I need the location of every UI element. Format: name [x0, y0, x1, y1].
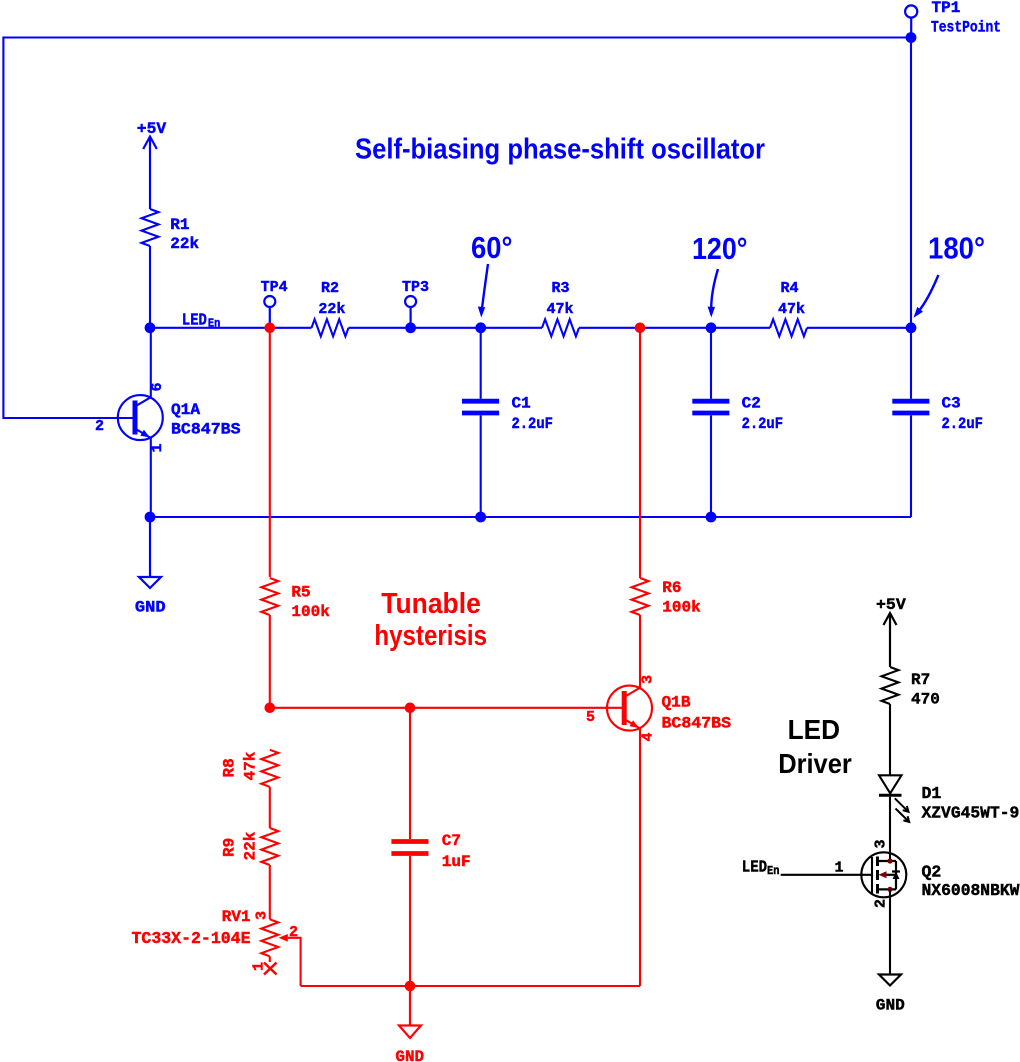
capacitor C2 — [692, 328, 729, 517]
svg-text:5: 5 — [586, 709, 595, 726]
wire D1 to Q2 — [889, 797, 891, 861]
wire node row to Q1B base — [270, 707, 623, 709]
svg-text:47k: 47k — [242, 751, 260, 780]
capacitor C3 — [892, 328, 929, 517]
resistor R6 — [632, 578, 649, 615]
svg-text:C1: C1 — [512, 395, 531, 413]
wire R5 to node — [269, 615, 271, 708]
svg-text:C7: C7 — [442, 832, 461, 850]
capacitor C7 — [391, 708, 428, 986]
resistor R1 — [142, 209, 159, 246]
test point TP3 — [405, 296, 416, 328]
test point TP1 — [905, 5, 917, 37]
svg-text:R5: R5 — [291, 584, 310, 602]
svg-text:R7: R7 — [911, 671, 930, 689]
svg-text:hysterisis: hysterisis — [374, 620, 487, 652]
svg-text:GND: GND — [395, 1048, 424, 1062]
resistor R8 — [261, 750, 278, 787]
svg-text:NX6008NBKW: NX6008NBKW — [922, 881, 1020, 900]
RV1 pin1 stub and no-connect X — [269, 956, 271, 962]
svg-text:XZVG45WT-9: XZVG45WT-9 — [922, 804, 1020, 823]
MOSFET Q2 — [781, 852, 907, 897]
svg-text:+5V: +5V — [876, 596, 906, 614]
svg-text:R6: R6 — [662, 579, 681, 597]
LED D1 — [879, 775, 909, 822]
svg-text:47k: 47k — [778, 301, 805, 318]
resistor R9 — [261, 828, 278, 865]
svg-text:470: 470 — [911, 691, 940, 709]
svg-text:6: 6 — [149, 382, 166, 391]
svg-text:Q2: Q2 — [922, 863, 942, 882]
svg-text:3: 3 — [873, 839, 890, 848]
arrow 60 degrees — [482, 264, 488, 310]
svg-text:TP4: TP4 — [261, 279, 288, 296]
svg-text:2.2uF: 2.2uF — [512, 415, 553, 433]
wire R9 to RV1 — [269, 865, 271, 919]
arrow 120 degrees — [711, 269, 718, 310]
svg-text:4: 4 — [640, 732, 657, 741]
wire bottom red — [301, 985, 640, 987]
arrow 180 degrees — [918, 275, 938, 312]
transistor Q1B — [607, 686, 652, 986]
svg-text:100k: 100k — [291, 603, 330, 621]
svg-text:1: 1 — [835, 860, 844, 877]
junction dots red — [265, 323, 646, 992]
svg-text:3: 3 — [254, 911, 271, 920]
svg-text:LED: LED — [182, 312, 207, 331]
wire top loop to Q1A base — [3, 38, 911, 419]
RV1 wiper arrow — [279, 934, 288, 942]
svg-text:2: 2 — [95, 418, 104, 435]
svg-text:22k: 22k — [242, 831, 260, 860]
wire wiper to bottom — [288, 938, 301, 986]
svg-text:LED: LED — [788, 714, 840, 745]
node TP1 junction — [906, 32, 917, 43]
svg-text:Q1B: Q1B — [662, 694, 691, 712]
ground GND black — [879, 975, 901, 986]
resistor R4 — [770, 319, 807, 336]
svg-text:TestPoint: TestPoint — [931, 18, 1001, 36]
wire bottom horizontal — [150, 516, 911, 518]
resistor R2 — [312, 319, 349, 336]
svg-text:22k: 22k — [170, 235, 199, 253]
svg-text:RV1: RV1 — [222, 908, 251, 926]
svg-text:TC33X-2-104E: TC33X-2-104E — [132, 930, 251, 949]
svg-text:Tunable: Tunable — [381, 588, 481, 620]
svg-text:1: 1 — [251, 962, 268, 971]
svg-text:2.2uF: 2.2uF — [742, 415, 783, 433]
resistor R5 — [261, 578, 278, 615]
Q1B emitter arrow — [630, 720, 640, 728]
Q2 junction dots — [887, 858, 892, 863]
svg-text:3: 3 — [640, 675, 657, 684]
svg-text:Self-biasing phase-shift oscil: Self-biasing phase-shift oscillator — [355, 134, 765, 166]
svg-text:BC847BS: BC847BS — [662, 714, 732, 732]
junction dots blue — [145, 322, 917, 522]
power +5V symbol — [143, 137, 157, 210]
svg-text:2.2uF: 2.2uF — [942, 415, 983, 433]
potentiometer RV1 — [261, 919, 278, 956]
wire R1 to main — [149, 246, 151, 328]
svg-text:GND: GND — [876, 997, 905, 1015]
svg-text:En: En — [208, 318, 220, 331]
svg-text:TP1: TP1 — [932, 0, 961, 17]
svg-text:2: 2 — [289, 924, 298, 941]
svg-text:2: 2 — [873, 899, 890, 908]
resistor R7 — [882, 667, 899, 704]
svg-text:R8: R8 — [221, 758, 239, 777]
wire 120 node down to R6 — [639, 328, 641, 578]
svg-text:C2: C2 — [742, 395, 761, 413]
svg-text:60°: 60° — [471, 230, 513, 265]
svg-text:120°: 120° — [692, 231, 748, 266]
svg-text:TP3: TP3 — [402, 279, 429, 296]
svg-text:100k: 100k — [662, 598, 701, 616]
wire R7 to D1 — [889, 704, 891, 775]
svg-text:R2: R2 — [321, 280, 339, 297]
svg-text:En: En — [767, 865, 779, 878]
svg-text:Driver: Driver — [778, 748, 852, 779]
svg-text:22k: 22k — [318, 301, 345, 318]
svg-text:C3: C3 — [942, 395, 961, 413]
resistor R3 — [542, 319, 579, 336]
Q2 body diode triangle — [893, 872, 900, 879]
capacitor C1 — [462, 328, 499, 517]
power +5V black — [884, 613, 897, 667]
wire main horizontal — [150, 327, 911, 329]
svg-text:R3: R3 — [552, 280, 570, 297]
svg-text:GND: GND — [135, 599, 166, 617]
svg-text:Q1A: Q1A — [171, 401, 200, 419]
svg-text:R4: R4 — [781, 280, 799, 297]
svg-text:LED: LED — [742, 859, 767, 878]
wire Q2 to GND — [889, 889, 891, 974]
ground GND blue — [139, 517, 161, 588]
svg-text:BC847BS: BC847BS — [171, 421, 241, 439]
svg-text:180°: 180° — [928, 231, 985, 266]
svg-text:47k: 47k — [547, 301, 574, 318]
test point TP4 — [264, 296, 275, 328]
ground GND red — [399, 986, 421, 1038]
wire R6 to Q1B — [639, 615, 641, 688]
transistor Q1A — [118, 328, 163, 517]
Q1A emitter arrow — [140, 430, 150, 438]
svg-text:+5V: +5V — [137, 120, 167, 138]
svg-text:R1: R1 — [170, 216, 189, 234]
svg-text:D1: D1 — [922, 784, 942, 803]
svg-text:R9: R9 — [221, 838, 239, 857]
svg-text:1uF: 1uF — [442, 853, 471, 871]
wire TP4 down to R5 — [269, 328, 271, 577]
Q2 substrate arrow — [879, 871, 887, 878]
svg-text:1: 1 — [149, 443, 166, 452]
wire R8 to R9 — [269, 787, 271, 828]
wire right vertical — [910, 38, 912, 328]
